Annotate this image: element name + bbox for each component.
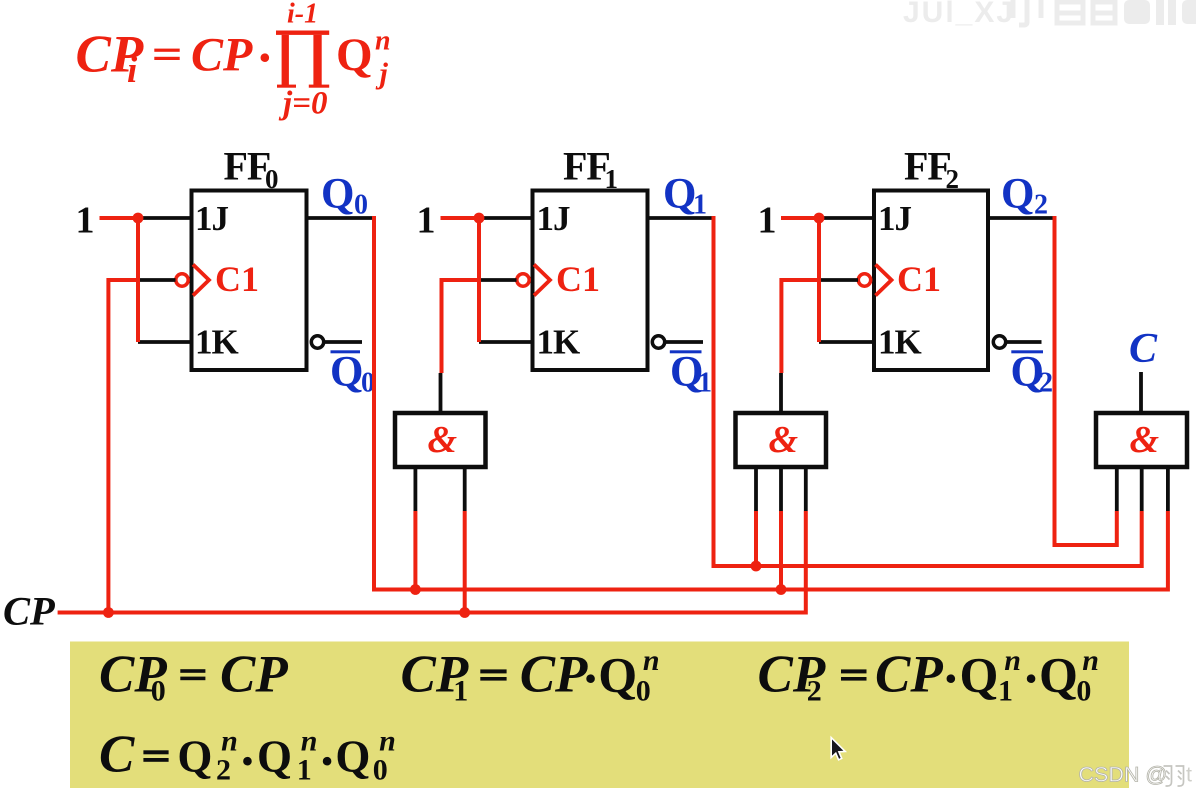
svg-text:C1: C1 — [897, 259, 941, 299]
svg-text:1: 1 — [693, 190, 707, 221]
wire CP bus (red) — [58, 511, 806, 613]
junction CP at FF0 — [103, 607, 114, 618]
watermark CSDN bottom right — [1079, 763, 1193, 787]
wire FF0 clock horizontal (red) — [108, 278, 138, 282]
svg-text:CP: CP — [875, 645, 943, 703]
junction AND2-Q1 — [751, 561, 762, 572]
wire FF2 J input (black) — [819, 216, 874, 220]
svg-text:Q: Q — [330, 349, 363, 396]
svg-text:i: i — [127, 50, 138, 91]
wire Q1 output (black) — [648, 216, 714, 220]
svg-text:C1: C1 — [215, 259, 259, 299]
wire AND3 middle leg — [1140, 467, 1144, 511]
svg-text:1: 1 — [76, 200, 95, 242]
svg-text:2: 2 — [807, 675, 822, 708]
svg-text:1J: 1J — [878, 199, 912, 238]
svg-text:&: & — [428, 419, 458, 461]
formula CP0 = CP — [99, 645, 288, 707]
flip-flop FF0 — [192, 144, 307, 371]
wire AND2 right leg (to CP corner) — [804, 467, 808, 511]
svg-text:n: n — [375, 26, 391, 57]
junction FF0 J — [133, 213, 144, 224]
svg-text:n: n — [1082, 644, 1099, 677]
wire AND2 output (black) — [779, 373, 783, 413]
svg-text:0: 0 — [265, 164, 279, 194]
svg-text:·: · — [582, 650, 600, 708]
AND gate U3 — [1096, 413, 1187, 467]
svg-text:Q: Q — [960, 646, 999, 702]
svg-text:&: & — [769, 419, 799, 461]
wire FF1 K input (black) — [479, 340, 533, 344]
node Q1bar label — [670, 349, 712, 399]
wire AND3 right leg — [1166, 467, 1170, 511]
junction AND1-Q0 — [410, 584, 421, 595]
node Q1 label — [663, 171, 707, 221]
formula C = Q2^n . Q1^n . Q0^n — [99, 725, 396, 791]
wire FF2 clock drop (red) — [779, 278, 783, 373]
svg-text:·: · — [239, 732, 257, 790]
FF2 Qbar bubble — [993, 336, 1005, 348]
mouse cursor — [831, 738, 845, 760]
FF1 Qbar bubble — [652, 336, 664, 348]
svg-text:0: 0 — [354, 190, 368, 221]
wire AND3 left leg — [1115, 467, 1119, 511]
flip-flop FF2 — [874, 144, 988, 371]
node Q2 label — [1001, 171, 1048, 221]
svg-text:2: 2 — [946, 164, 960, 194]
node Q2bar label — [1011, 349, 1054, 399]
node Q0bar label — [330, 349, 375, 399]
AND gate U1 — [395, 413, 486, 467]
FF1 clock bubble — [517, 274, 529, 286]
wire Q1 bus horizontal (red) — [714, 511, 1142, 566]
svg-text:JUl_XJ: JUl_XJ — [903, 0, 1015, 29]
svg-text:1K: 1K — [878, 323, 922, 362]
svg-text:1: 1 — [698, 368, 712, 399]
wire Q0 bus horizontal (red) — [374, 511, 1168, 590]
junction FF1 J — [474, 213, 485, 224]
svg-text:Q: Q — [335, 731, 370, 781]
wire Q2 link horizontal (red) — [1055, 511, 1117, 545]
node Q0 label — [321, 171, 368, 221]
svg-text:CP: CP — [520, 645, 588, 703]
svg-text:FF: FF — [563, 144, 610, 189]
svg-text:2: 2 — [1039, 368, 1053, 399]
FF2 clock triangle — [876, 265, 892, 296]
formula CP2 = CP . Q1^n . Q0^n — [758, 644, 1099, 708]
wire FF0 J-K tie (red) — [136, 218, 140, 342]
wire FF0 C input stub (black) — [138, 278, 176, 282]
wire Q0bar stub (black) — [324, 340, 362, 344]
svg-text:n: n — [1004, 644, 1021, 677]
svg-text:Q: Q — [257, 731, 292, 781]
node CPi formula (top) — [76, 0, 391, 122]
wire FF1 1 lead (red) — [441, 216, 480, 220]
wire FF2 clock horizontal (red) — [781, 278, 819, 282]
svg-text:FF: FF — [224, 144, 271, 189]
wire AND1 output (black) — [439, 373, 443, 413]
svg-text:CP: CP — [191, 28, 253, 81]
wire Q2 drop (red) — [1053, 216, 1057, 545]
wire FF0 J input (black) — [138, 216, 192, 220]
wire Q1 drop (red) — [712, 216, 716, 566]
svg-text:Q: Q — [177, 731, 212, 781]
wire Q2 output (black) — [988, 216, 1055, 220]
svg-text:Q: Q — [598, 646, 637, 702]
svg-text:1: 1 — [417, 200, 436, 242]
svg-text:CSDN @: CSDN @ — [1079, 763, 1168, 787]
wire AND2 middle leg — [779, 467, 783, 511]
svg-text:0: 0 — [151, 675, 166, 708]
svg-text:·: · — [942, 650, 960, 708]
wire FF2 J-K tie (red) — [817, 218, 821, 342]
wire Q2bar stub (black) — [1006, 340, 1042, 344]
svg-text:FF: FF — [904, 144, 951, 189]
FF0 clock triangle — [193, 265, 209, 296]
svg-text:&: & — [1130, 419, 1160, 461]
svg-text:2: 2 — [216, 754, 231, 787]
wire FF2 K input (black) — [819, 340, 874, 344]
svg-text:C1: C1 — [556, 259, 600, 299]
svg-text:·: · — [318, 732, 336, 790]
svg-text:1: 1 — [297, 754, 312, 787]
svg-text:C: C — [99, 725, 135, 783]
svg-text:j=0: j=0 — [278, 86, 327, 122]
svg-text:0: 0 — [1076, 675, 1091, 708]
flip-flop FF1 — [533, 144, 648, 371]
svg-text:Q: Q — [1039, 646, 1078, 702]
formula CP1 = CP . Q0^n — [401, 644, 660, 708]
FF2 clock bubble — [858, 274, 870, 286]
wire FF0 K input (black) — [138, 340, 192, 344]
wire FF1 clock horizontal (red) — [442, 278, 480, 282]
AND gate U2 — [736, 413, 827, 467]
svg-text:2: 2 — [1034, 190, 1048, 221]
svg-text:1J: 1J — [537, 199, 571, 238]
wire AND1 right leg — [463, 467, 467, 511]
svg-text:0: 0 — [373, 754, 388, 787]
wire FF1 J input (black) — [479, 216, 533, 220]
junction AND2-Q0 — [776, 584, 787, 595]
wire FF1 J-K tie (red) — [477, 218, 481, 342]
junction AND1-CP — [459, 607, 470, 618]
svg-text:1: 1 — [998, 675, 1013, 708]
wire FF0 clock drop (red) — [106, 278, 110, 613]
wire Q0 output (black) — [307, 216, 375, 220]
svg-text:1K: 1K — [195, 323, 239, 362]
wire AND1 left leg — [413, 467, 417, 511]
wire FF2 1 lead (red) — [781, 216, 819, 220]
wire FF0 1 lead (red) — [100, 216, 139, 220]
FF0 Qbar bubble — [311, 336, 323, 348]
svg-text:Q: Q — [1001, 171, 1034, 218]
svg-text:·: · — [256, 29, 274, 87]
wire FF2 C input stub (black) — [819, 278, 858, 282]
wire FF1 clock drop (red) — [440, 278, 444, 373]
svg-text:0: 0 — [636, 675, 651, 708]
svg-text:CP: CP — [220, 645, 288, 703]
wire AND2 left leg — [754, 467, 758, 511]
svg-text:1: 1 — [758, 200, 777, 242]
svg-text:1: 1 — [605, 164, 619, 194]
svg-text:1K: 1K — [537, 323, 581, 362]
svg-text:C: C — [1129, 326, 1158, 372]
svg-text:n: n — [643, 644, 660, 677]
svg-text:i-1: i-1 — [287, 0, 318, 30]
wire Q0 drop (red) — [372, 216, 376, 590]
watermark top right — [903, 0, 1196, 29]
wire Q1bar stub (black) — [665, 340, 703, 344]
svg-text:t: t — [1186, 763, 1192, 787]
svg-text:1J: 1J — [195, 199, 229, 238]
wire AND3 output to C (black) — [1139, 372, 1143, 413]
svg-text:Q: Q — [321, 171, 354, 218]
FF0 clock bubble — [176, 274, 188, 286]
svg-text:1: 1 — [453, 675, 468, 708]
wire FF1 C input stub (black) — [479, 278, 517, 282]
FF1 clock triangle — [534, 265, 550, 296]
svg-text:·: · — [1022, 650, 1040, 708]
formula box (yellow) — [70, 642, 1129, 789]
svg-text:Q: Q — [663, 171, 696, 218]
svg-text:CP: CP — [3, 589, 55, 634]
svg-text:Q: Q — [336, 29, 373, 81]
junction FF2 J — [814, 213, 825, 224]
